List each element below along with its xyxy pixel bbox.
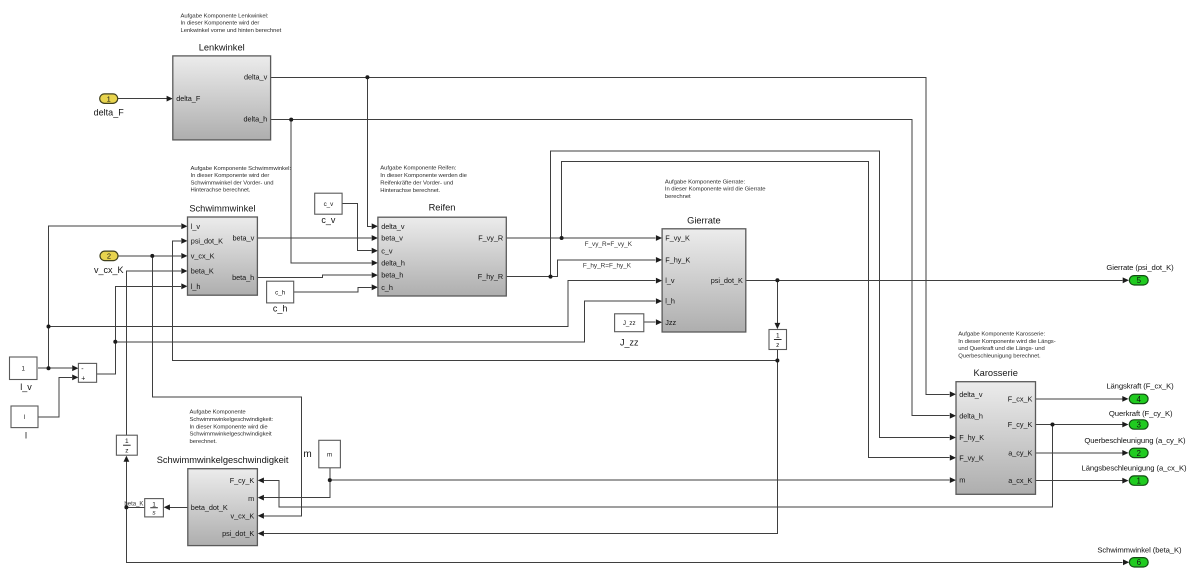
- svg-text:v_cx_K: v_cx_K: [191, 252, 215, 261]
- svg-text:l_v: l_v: [665, 276, 675, 285]
- svg-text:Querkraft (F_cy_K): Querkraft (F_cy_K): [1109, 409, 1173, 418]
- svg-text:Hinterachse berechnet.: Hinterachse berechnet.: [380, 188, 440, 194]
- svg-text:In dieser Komponente wird der: In dieser Komponente wird der: [181, 21, 260, 27]
- svg-text:v_cx_K: v_cx_K: [230, 511, 254, 520]
- svg-text:F_hy_R: F_hy_R: [478, 272, 503, 281]
- svg-text:c_v: c_v: [381, 246, 393, 255]
- svg-text:psi_dot_K: psi_dot_K: [222, 529, 254, 538]
- svg-text:psi_dot_K: psi_dot_K: [711, 276, 743, 285]
- svg-text:In dieser Komponente wird der: In dieser Komponente wird der: [191, 173, 270, 179]
- svg-text:1: 1: [776, 333, 780, 340]
- svg-text:delta_h: delta_h: [244, 115, 268, 124]
- svg-text:In dieser Komponente wird die: In dieser Komponente wird die Längs-: [958, 339, 1056, 345]
- svg-text:5: 5: [1137, 276, 1142, 285]
- svg-text:delta_F: delta_F: [176, 94, 201, 103]
- svg-text:beta_K: beta_K: [191, 267, 214, 276]
- svg-text:Schwimmwinkel der Vorder- und: Schwimmwinkel der Vorder- und: [191, 180, 274, 186]
- svg-text:Schwimmwinkelgeschwindigkeit: Schwimmwinkelgeschwindigkeit: [157, 455, 289, 465]
- svg-text:delta_v: delta_v: [244, 73, 268, 82]
- svg-text:a_cx_K: a_cx_K: [1008, 476, 1032, 485]
- svg-text:Querbeschleunigung (a_cy_K): Querbeschleunigung (a_cy_K): [1084, 436, 1186, 445]
- svg-text:Schwimmwinkelgeschwindigkeit:: Schwimmwinkelgeschwindigkeit:: [190, 417, 274, 423]
- svg-text:und Querkraft und die Längs- u: und Querkraft und die Längs- und: [958, 346, 1044, 352]
- svg-text:l_v: l_v: [191, 222, 201, 231]
- svg-text:delta_h: delta_h: [959, 411, 983, 420]
- svg-text:beta_h: beta_h: [381, 271, 403, 280]
- svg-text:Aufgabe Komponente Gierrate:: Aufgabe Komponente Gierrate:: [665, 179, 746, 185]
- svg-text:3: 3: [1136, 420, 1141, 429]
- svg-text:c_v: c_v: [324, 201, 335, 208]
- svg-text:1: 1: [107, 94, 111, 103]
- svg-text:F_cy_K: F_cy_K: [230, 476, 255, 485]
- svg-text:l_v: l_v: [20, 382, 32, 392]
- svg-text:Aufgabe Komponente Schwimmwink: Aufgabe Komponente Schwimmwinkel:: [191, 166, 292, 172]
- svg-text:m: m: [959, 476, 965, 485]
- svg-text:z: z: [776, 342, 779, 349]
- svg-text:beta_h: beta_h: [232, 273, 254, 282]
- svg-text:delta_h: delta_h: [381, 259, 405, 268]
- svg-text:l_h: l_h: [665, 297, 675, 306]
- svg-text:Reifenkräfte der Vorder- und: Reifenkräfte der Vorder- und: [380, 181, 453, 187]
- svg-text:c_h: c_h: [275, 289, 286, 296]
- svg-text:Schwimmwinkelgeschwindigkeit: Schwimmwinkelgeschwindigkeit: [190, 432, 272, 438]
- svg-text:F_hy_K: F_hy_K: [665, 256, 690, 265]
- svg-text:berechnet: berechnet: [665, 194, 691, 200]
- svg-text:In dieser Komponente wird die: In dieser Komponente wird die Gierrate: [665, 187, 766, 193]
- svg-text:psi_dot_K: psi_dot_K: [191, 237, 223, 246]
- svg-text:In dieser Komponente werden di: In dieser Komponente werden die: [380, 173, 467, 179]
- svg-text:beta_K: beta_K: [124, 501, 143, 507]
- svg-text:4: 4: [1136, 395, 1141, 404]
- svg-text:2: 2: [1136, 449, 1141, 458]
- svg-text:F_vy_K: F_vy_K: [959, 453, 984, 462]
- svg-text:Gierrate: Gierrate: [687, 216, 721, 226]
- svg-text:Aufgabe Komponente: Aufgabe Komponente: [190, 410, 247, 416]
- svg-text:delta_v: delta_v: [959, 390, 983, 399]
- svg-text:m: m: [248, 494, 254, 503]
- svg-text:delta_F: delta_F: [94, 108, 125, 118]
- svg-text:Hinterachse berechnet.: Hinterachse berechnet.: [191, 188, 251, 194]
- svg-text:1: 1: [22, 365, 26, 372]
- svg-text:6: 6: [1137, 558, 1142, 567]
- svg-text:F_vy_R=F_vy_K: F_vy_R=F_vy_K: [585, 241, 633, 248]
- svg-text:Längsbeschleunigung (a_cx_K): Längsbeschleunigung (a_cx_K): [1082, 464, 1187, 473]
- svg-text:F_vy_K: F_vy_K: [665, 234, 690, 243]
- svg-text:+: +: [81, 376, 85, 383]
- svg-text:z: z: [125, 448, 128, 455]
- svg-text:l: l: [24, 414, 25, 421]
- svg-text:l_h: l_h: [191, 282, 201, 291]
- svg-text:c_h: c_h: [381, 283, 393, 292]
- svg-text:Lenkwinkel vorne und hinten be: Lenkwinkel vorne und hinten berechnet: [181, 28, 282, 34]
- svg-text:Querbeschleunigung berechnet.: Querbeschleunigung berechnet.: [958, 354, 1041, 360]
- svg-text:beta_dot_K: beta_dot_K: [191, 503, 228, 512]
- svg-text:Lenkwinkel: Lenkwinkel: [199, 43, 245, 53]
- svg-text:1: 1: [125, 438, 129, 445]
- svg-text:Schwimmwinkel: Schwimmwinkel: [189, 204, 255, 214]
- svg-text:Aufgabe Komponente Karosserie:: Aufgabe Komponente Karosserie:: [958, 332, 1045, 338]
- svg-text:Aufgabe Komponente Reifen:: Aufgabe Komponente Reifen:: [380, 166, 456, 172]
- svg-text:Gierrate (psi_dot_K): Gierrate (psi_dot_K): [1106, 263, 1174, 272]
- svg-text:F_cy_K: F_cy_K: [1008, 420, 1033, 429]
- svg-text:c_v: c_v: [321, 215, 336, 225]
- svg-text:Längskraft (F_cx_K): Längskraft (F_cx_K): [1106, 382, 1174, 391]
- svg-text:Schwimmwinkel (beta_K): Schwimmwinkel (beta_K): [1097, 545, 1182, 554]
- svg-text:2: 2: [107, 252, 111, 261]
- svg-text:berechnet.: berechnet.: [190, 439, 218, 445]
- svg-text:delta_v: delta_v: [381, 222, 405, 231]
- svg-text:l: l: [25, 431, 27, 441]
- svg-text:v_cx_K: v_cx_K: [94, 265, 124, 275]
- svg-text:J_zz: J_zz: [623, 320, 636, 327]
- svg-text:beta_v: beta_v: [381, 234, 403, 243]
- svg-text:F_vy_R: F_vy_R: [478, 234, 503, 243]
- svg-text:beta_v: beta_v: [233, 234, 255, 243]
- svg-text:F_cx_K: F_cx_K: [1008, 395, 1033, 404]
- svg-text:In dieser Komponente wird die: In dieser Komponente wird die: [190, 424, 269, 430]
- svg-text:a_cy_K: a_cy_K: [1008, 449, 1032, 458]
- svg-text:Reifen: Reifen: [429, 203, 456, 213]
- svg-text:m: m: [327, 451, 332, 458]
- svg-text:1: 1: [1136, 477, 1141, 486]
- svg-text:Karosserie: Karosserie: [973, 368, 1017, 378]
- svg-text:c_h: c_h: [273, 304, 288, 314]
- svg-text:Jzz: Jzz: [665, 318, 676, 327]
- svg-text:F_hy_K: F_hy_K: [959, 433, 984, 442]
- svg-text:J_zz: J_zz: [620, 338, 639, 348]
- svg-text:m: m: [303, 449, 311, 460]
- svg-text:F_hy_R=F_hy_K: F_hy_R=F_hy_K: [583, 263, 632, 270]
- svg-text:Aufgabe Komponente Lenkwinkel:: Aufgabe Komponente Lenkwinkel:: [181, 14, 269, 20]
